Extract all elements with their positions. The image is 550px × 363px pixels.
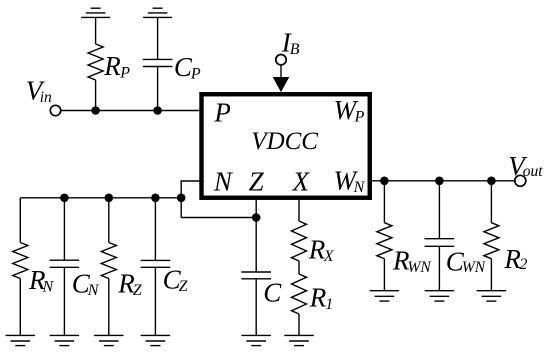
wire (I_B to arrow) [280, 65, 282, 80]
svg-text:Z: Z [249, 167, 265, 197]
svg-text:RX: RX [308, 234, 335, 265]
wire (N step down to node Z) [181, 217, 256, 219]
wire (bus to R_Z) [108, 198, 110, 243]
wire (bus to R_2) [490, 181, 492, 223]
capacitor C_N [50, 260, 80, 267]
ground (under R_N) [6, 335, 36, 345]
junction (bus / C_Z) [151, 194, 160, 203]
svg-text:CWN: CWN [446, 246, 487, 276]
ground (under C_Z) [141, 335, 171, 345]
resistor R_1 [292, 274, 307, 314]
wire (pin Z down to capacitor C) [255, 200, 257, 272]
wire (pin W_N to V_out bus) [368, 180, 515, 182]
wire (R_2 to ground) [490, 259, 492, 291]
junction (bus / C_WN) [435, 177, 444, 186]
wire (bus to C_WN) [438, 181, 440, 239]
wire (bus to R_WN) [383, 181, 385, 223]
svg-text:RZ: RZ [117, 268, 143, 299]
resistor R_P [88, 44, 103, 80]
wire (R_1 to ground) [298, 314, 300, 335]
svg-text:RP: RP [103, 51, 130, 82]
svg-text:WN: WN [334, 166, 366, 197]
ground (under R_Z) [94, 335, 124, 345]
svg-text:Vin: Vin [26, 76, 52, 107]
wire (C_Z to ground) [154, 267, 156, 335]
resistor R_Z [101, 243, 116, 279]
capacitor C [241, 272, 271, 279]
wire (R_N to ground) [19, 279, 21, 336]
svg-text:Vout: Vout [508, 151, 543, 181]
ground (top, for C_P) [143, 8, 172, 17]
junction (node N corner) [177, 194, 186, 203]
wire (R_Z to ground) [108, 279, 110, 336]
arrowhead (current I_B into VDCC) [273, 77, 290, 92]
terminal V_in (open circle) [50, 105, 60, 115]
junction (bus / C_P) [153, 106, 162, 115]
wire (ground to C_P) [157, 17, 159, 59]
resistor R_WN [377, 223, 392, 259]
wire (pin X down to R_X) [298, 200, 300, 221]
junction (bus / R_2) [487, 177, 496, 186]
wire (bus to R_N) [19, 198, 21, 243]
junction (bus / R_Z) [105, 194, 114, 203]
terminal V_out (open circle) [515, 175, 526, 186]
wire (C_WN to ground) [438, 246, 440, 290]
ground (under C_N) [50, 335, 80, 345]
capacitor C_Z [141, 260, 171, 267]
wire (R_P to input bus) [95, 80, 97, 111]
resistor R_N [13, 243, 28, 279]
capacitor C_P [143, 59, 173, 66]
wire (C_N to ground) [63, 267, 65, 335]
wire (ground to R_P) [95, 17, 97, 44]
svg-text:IB: IB [281, 28, 300, 59]
svg-text:P: P [213, 97, 231, 127]
resistor R_X [292, 221, 307, 261]
terminal I_B (open circle) [276, 55, 286, 65]
wire (bus to C_Z) [154, 198, 156, 261]
wire (bus to C_N) [63, 198, 65, 260]
svg-text:C: C [263, 277, 282, 307]
junction (bus / C_N) [60, 194, 69, 203]
resistor R_2 [484, 223, 499, 259]
svg-text:WP: WP [334, 95, 365, 126]
wire (R_X to R_1) [298, 261, 300, 274]
ground (under R_1) [284, 335, 314, 345]
wire (left bus at node N) [20, 197, 181, 199]
wire (V_in to pin P) [61, 110, 203, 112]
wire (pin N stub) [181, 181, 204, 218]
junction (node Z) [252, 213, 261, 222]
svg-text:CP: CP [174, 52, 201, 83]
svg-text:X: X [292, 167, 311, 197]
ground (top left, for R_P) [81, 8, 110, 17]
capacitor C_WN [425, 239, 455, 247]
op-amp block U1 VDCC [202, 94, 370, 198]
svg-text:RN: RN [28, 265, 55, 296]
ground (under C) [241, 335, 271, 345]
svg-text:RWN: RWN [392, 245, 432, 276]
ground (under R_2) [477, 291, 507, 301]
ground (under R_WN) [370, 291, 400, 301]
wire (C to ground) [255, 279, 257, 336]
wire (C_P to input bus) [157, 67, 159, 111]
svg-text:CZ: CZ [163, 264, 189, 295]
svg-text:R1: R1 [309, 283, 334, 314]
junction (bus / R_WN) [380, 177, 389, 186]
svg-text:R2: R2 [503, 244, 527, 274]
svg-text:N: N [213, 167, 234, 197]
svg-text:CN: CN [72, 269, 100, 300]
ground (under C_WN) [425, 291, 455, 301]
junction (bus / R_P) [91, 106, 100, 115]
svg-text:VDCC: VDCC [251, 128, 318, 155]
wire (R_WN to ground) [383, 259, 385, 291]
